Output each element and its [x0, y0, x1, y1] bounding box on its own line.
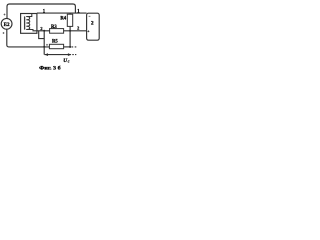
Uc double arrow [45, 54, 71, 56]
svg-text:Е2: Е2 [4, 23, 10, 28]
Uc dashed continuation [72, 54, 76, 56]
wire: vertical junction drop to bottom rail [43, 31, 45, 47]
svg-text:2: 2 [77, 26, 79, 31]
svg-text:R3: R3 [51, 25, 57, 30]
relay box [21, 14, 37, 34]
wire: pin 1 horizontal to amplifier [37, 12, 87, 14]
relay core bar [24, 16, 26, 29]
junction dot R4 rail amp input [69, 30, 71, 32]
resistor R5 [49, 44, 63, 48]
svg-text:2: 2 [91, 21, 94, 27]
polarity plus top of E2 [4, 14, 6, 16]
junction dot bottom rail output [69, 46, 71, 48]
polarity plus left of R5 [46, 44, 48, 46]
wire: dashed output continuation bottom [71, 46, 76, 48]
Uc arrowhead left [45, 53, 49, 56]
amplifier U2 box [87, 13, 100, 40]
wire: R3 to amplifier plus input [64, 30, 87, 32]
wire: top rail from E2 top to right drop [7, 4, 75, 19]
source E2 circle [1, 18, 12, 29]
wire: pin 2 horizontal relay to R3 [37, 30, 50, 32]
Uc arrow left drop [43, 47, 45, 55]
amplifier minus input mark [89, 15, 91, 17]
Uc arrowhead right [68, 53, 72, 56]
polarity plus bottom of E2 [3, 32, 5, 34]
relay winding bottom lead [26, 30, 37, 31]
resistor R3 [50, 29, 64, 34]
svg-text:R4: R4 [60, 16, 66, 21]
wire: staircase from pin2 wire down [39, 31, 45, 39]
junction dot bottom rail left [43, 46, 45, 48]
wire: bottom rail from R5 to output node [64, 46, 71, 48]
svg-text:2: 2 [40, 26, 42, 31]
amplifier plus input mark [87, 30, 89, 32]
relay winding arcs [26, 17, 29, 30]
wire: E2 bottom lead and bottom rail [7, 29, 50, 47]
resistor R4 [67, 14, 72, 26]
svg-text:R5: R5 [52, 40, 58, 45]
svg-text:c: c [68, 59, 70, 63]
svg-text:Фиг. 3 б: Фиг. 3 б [39, 65, 61, 72]
junction dot pin2/R3 node [43, 30, 45, 32]
relay winding top lead [26, 14, 32, 17]
wire: R4 rail vertical [69, 13, 71, 47]
